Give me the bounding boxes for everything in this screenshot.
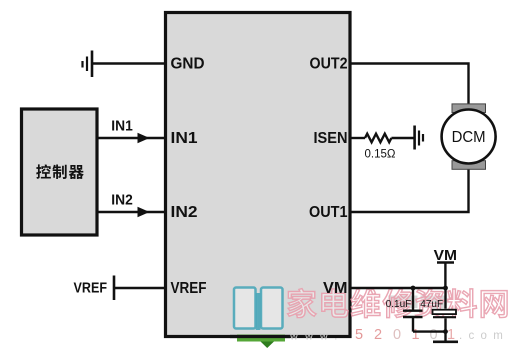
wire ISEN to resistor [352,137,366,139]
svg-text:.com: .com [459,330,509,342]
svg-text:0.1uF: 0.1uF [386,299,412,310]
junction dot VM-C1 [411,286,416,291]
wire C2 bottom lead [444,318,446,331]
controller label char 制 [52,165,66,179]
watermark green arrow [261,342,275,349]
capacitor C1 plates 0.1uF [403,311,423,317]
wire OUT1 to motor [352,167,469,212]
arrowhead IN2 [138,207,150,218]
VREF terminal bar [113,276,116,301]
watermark char 修 [383,289,413,318]
wire VM pin to net [352,287,446,289]
controller label char 器 [69,165,84,179]
watermark char 电 [322,289,348,317]
svg-text:IN1: IN1 [171,130,198,147]
watermark 520101 [355,327,455,343]
watermark char 维 [351,289,380,318]
svg-text:OUT1: OUT1 [309,204,348,221]
watermark green banner [237,335,285,342]
motor brush bottom [452,161,486,170]
wire VREF [114,287,164,289]
wire ground rail [413,330,446,332]
watermark char 资 [416,289,444,318]
junction dot VM-C2 [443,286,448,291]
svg-text:VM: VM [434,247,457,264]
svg-text:5: 5 [355,327,363,343]
wire VM supply drop [444,264,446,289]
capacitor C2 47uF box plate [433,310,457,314]
ground symbol G1 (left of GND pin) [83,51,93,78]
svg-text:DCM: DCM [452,129,486,146]
capacitor label background C1 [388,296,418,309]
controller box [22,109,98,235]
svg-text:OUT2: OUT2 [310,55,348,72]
svg-text:IN2: IN2 [171,204,198,221]
arrowhead IN1 [138,133,150,144]
ground bar G3 (below caps) [433,340,458,343]
ground symbol G2 (right of resistor) [415,126,423,150]
junction dot rail [443,329,448,334]
IC U1 body [166,13,351,337]
svg-text:2: 2 [374,327,382,343]
svg-text:0: 0 [393,327,401,343]
watermark char 家 [288,289,316,318]
watermark book icon [234,288,283,331]
wire OUT2 to motor [352,64,469,107]
wire IN1 [99,137,165,139]
motor M1 circle [442,110,496,164]
svg-text:VM: VM [323,280,348,297]
resistor R1 0.15ohm zigzag [365,134,391,143]
svg-text:0.15Ω: 0.15Ω [365,149,396,161]
svg-text:ISEN: ISEN [314,130,348,147]
svg-text:www.: www. [289,331,344,343]
wire resistor to ground [391,137,413,139]
wire IN2 [99,211,165,213]
watermark char 网 [481,291,507,318]
capacitor C2 bottom plate [433,316,456,318]
wire C1 bottom lead [412,318,414,332]
watermark char 料 [447,289,476,318]
wire C1 top lead [412,288,414,310]
motor brush top [452,104,486,113]
capacitor label background C2 [421,296,447,309]
svg-text:GND: GND [171,55,205,72]
svg-text:IN2: IN2 [111,192,133,209]
VM supply bar [437,261,454,264]
svg-text:IN1: IN1 [111,118,133,135]
wire C2 top lead [444,288,446,309]
IC bottom border over banner [230,335,290,338]
wire rail to ground [444,332,446,341]
svg-text:47uF: 47uF [420,299,443,310]
wire GND to IC [92,62,164,64]
svg-text:VREF: VREF [171,280,207,297]
controller label char 控 [36,164,51,178]
svg-text:VREF: VREF [74,281,108,297]
